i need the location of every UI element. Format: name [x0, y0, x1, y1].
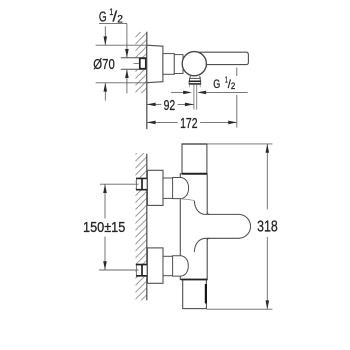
svg-text:Ø70: Ø70: [93, 57, 115, 73]
supply pipe box bottom: [136, 264, 147, 276]
hose outlet neck: [190, 76, 200, 78]
escutcheon top union: [147, 170, 163, 205]
svg-text:318: 318: [257, 219, 278, 236]
wall face line (bottom view): [146, 154, 148, 301]
hose outlet band 2 (heavy): [189, 81, 201, 84]
supply nut bottom (heavy edges): [136, 265, 147, 276]
svg-text:2: 2: [231, 81, 235, 91]
wall face line (top view): [146, 32, 148, 129]
wall hatch (top view): [136, 32, 147, 93]
S-union segment 1: [163, 54, 174, 75]
svg-text:92: 92: [164, 98, 176, 114]
dimension Ø70 arrows: [104, 26, 106, 45]
S-union segment 2: [174, 55, 183, 74]
dim 150±15 extension lines: [100, 183, 139, 185]
spout outline: [194, 201, 250, 252]
dimension Ø70 extension lines: [96, 44, 147, 46]
wall escutcheon (top view, slight trapezoid): [147, 45, 163, 82]
neck bottom union: [163, 256, 173, 275]
dome top union: [173, 178, 189, 199]
leader G 1/2 top: vertical with arrows at pipe: [126, 23, 128, 57]
supply nut top (heavy edges): [136, 179, 147, 190]
body main tube: [180, 174, 207, 280]
dimension 172: [147, 121, 178, 123]
escutcheon bottom union: [147, 248, 163, 283]
bottom cap heavy right bar: [205, 284, 207, 304]
neck top union: [163, 178, 173, 198]
supply pipe behind wall (top view): [121, 58, 147, 69]
extension line right (for 172): [236, 68, 238, 128]
spout lead-in (faint): [181, 199, 195, 201]
outlet thread stub pair: [194, 84, 197, 109]
lever handle: [196, 52, 248, 64]
body top cap: [182, 144, 207, 174]
joint line top (heavy): [182, 173, 207, 175]
svg-text:150±15: 150±15: [83, 220, 125, 236]
pipe centerline: [134, 63, 146, 65]
supply pipe box top: [136, 178, 147, 190]
pipe thread box (heavy): [140, 58, 146, 68]
body edge corner rounds into spout: [207, 212, 209, 240]
label underline (top G 1/2): [99, 22, 127, 24]
dome bottom union: [173, 256, 189, 276]
valve body circle: [182, 52, 206, 76]
joint line bottom (heavy): [181, 279, 207, 281]
dim 150±15 line/arrows: [104, 184, 106, 218]
leader arrows at outlet thread: [171, 91, 184, 93]
spout fill: [181, 199, 251, 252]
outlet short edge stubs: [190, 84, 201, 87]
dim 318 extension lines: [207, 143, 273, 145]
hose outlet band 1: [190, 78, 201, 81]
wall hatch (bottom view): [136, 153, 147, 301]
dimension 92: [147, 103, 162, 105]
svg-text:172: 172: [180, 116, 197, 132]
dim 318 line/arrows: [266, 144, 268, 209]
svg-text:G: G: [213, 77, 220, 91]
body bottom cap: [183, 280, 207, 309]
